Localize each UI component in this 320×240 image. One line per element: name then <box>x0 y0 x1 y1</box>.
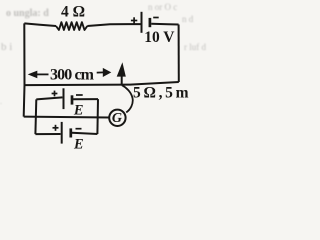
svg-text:E: E <box>73 103 84 119</box>
wire: upper cell row right <box>73 98 98 100</box>
wire: lower cell row left <box>35 133 60 135</box>
svg-text:o ungla: d: o ungla: d <box>6 8 49 19</box>
wire: bottom (potentiometer wire 5 ohm) <box>25 82 179 85</box>
300cm left arrow <box>28 62 126 85</box>
svg-text:.: . <box>0 97 2 106</box>
wire: jockey curve to galvanometer <box>122 85 133 112</box>
svg-text:300 cm: 300 cm <box>50 66 95 83</box>
cell E2 minus sign <box>76 128 82 130</box>
battery plus sign <box>52 17 159 131</box>
svg-text:b i: b i <box>1 41 12 53</box>
wire: resistor to battery <box>87 24 140 26</box>
wire: left vertical <box>23 23 26 116</box>
resistor R 4ohm zigzag <box>56 22 87 30</box>
svg-text:5 Ω , 5 m: 5 Ω , 5 m <box>133 84 189 101</box>
wire: battery to top-right corner <box>151 23 178 26</box>
svg-text:n or O c: n or O c <box>148 2 177 12</box>
300cm right arrow <box>97 71 104 73</box>
svg-text:G: G <box>112 111 122 126</box>
svg-text:4 Ω: 4 Ω <box>61 4 85 21</box>
cell E1 long plate <box>63 88 65 109</box>
galvanometer G circle <box>109 110 125 126</box>
battery B1 long plate (+) <box>141 12 143 33</box>
wire: right vertical <box>178 25 180 83</box>
wire: cell bank right vertical <box>96 99 99 134</box>
cell E1 plus sign <box>52 93 58 95</box>
jockey arrow <box>121 75 123 85</box>
wire: lower cell row right <box>72 133 98 134</box>
svg-text:E: E <box>73 136 84 152</box>
battery B1 short plate (-) <box>149 18 152 27</box>
battery minus sign <box>153 17 159 19</box>
wire: bus from left wire to galvanometer <box>24 116 110 119</box>
svg-text:n d: n d <box>182 14 194 24</box>
cell E1 minus sign <box>76 94 83 96</box>
cell E2 long plate <box>61 122 63 144</box>
paper background <box>0 0 208 160</box>
svg-text:r luf d: r luf d <box>184 42 206 52</box>
ghost bleed-through text top-left <box>0 2 206 106</box>
wire: cell bank left vertical <box>34 99 37 134</box>
cell E1 short plate <box>71 95 74 104</box>
cell E2 plus sign <box>53 127 59 129</box>
wire: upper cell row left <box>36 97 62 99</box>
cell E2 short plate <box>69 128 72 137</box>
svg-text:10 V: 10 V <box>144 29 175 46</box>
wire: top-left corner to resistor <box>24 23 56 26</box>
